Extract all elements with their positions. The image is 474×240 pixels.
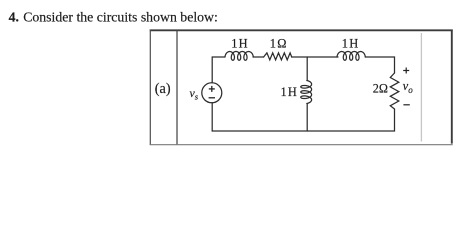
wire: between L1 and R1	[253, 56, 264, 58]
output minus	[403, 104, 409, 106]
svg-text:vs: vs	[190, 86, 199, 102]
svg-text:1H: 1H	[342, 37, 360, 51]
inductor L3 1H (middle, vertical)	[301, 81, 312, 104]
svg-text:1H: 1H	[231, 37, 249, 51]
node A: middle branch top wire	[306, 57, 308, 81]
wire: R1 to node A and to inductor L2	[292, 56, 338, 58]
wire: bottom-left up to source bottom	[211, 103, 213, 131]
table right border	[451, 30, 453, 144]
table bottom border	[150, 144, 453, 146]
svg-text:(a): (a)	[155, 81, 171, 97]
table left border	[149, 30, 151, 146]
svg-text:2Ω: 2Ω	[373, 82, 388, 96]
svg-text:Consider the circuits shown be: Consider the circuits shown below:	[23, 10, 218, 25]
inductor L1 1H (top left)	[225, 52, 253, 61]
wire: L2 to top-right corner, down to R2	[365, 57, 394, 73]
table top border	[150, 29, 453, 31]
svg-text:1Ω: 1Ω	[270, 37, 288, 51]
source VS circle	[202, 83, 222, 103]
output plus	[403, 68, 410, 105]
svg-text:1H: 1H	[281, 85, 299, 99]
resistor R1 1 ohm (top)	[264, 53, 292, 60]
faint inner column line	[420, 33, 422, 142]
svg-text:vo: vo	[403, 79, 413, 95]
inductor L2 1H (top right)	[337, 52, 365, 61]
source minus sign	[209, 97, 215, 99]
wire: top-left from corner to inductor L1	[212, 57, 225, 83]
source plus sign	[209, 86, 215, 98]
resistor R2 2 ohm (right, vertical)	[390, 73, 399, 109]
wire: L3 to bottom wire	[306, 104, 308, 132]
table column divider	[176, 30, 178, 146]
svg-text:4.: 4.	[9, 10, 19, 25]
wire: R2 down to bottom-right corner, bottom wire to bottom-left corner	[212, 109, 394, 131]
